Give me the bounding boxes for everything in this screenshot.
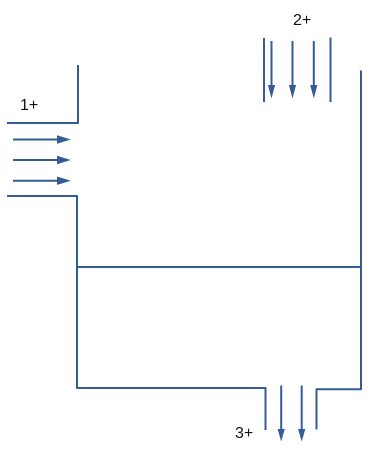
arrow: left inlet flow arrow 1 bbox=[13, 135, 71, 143]
arrow: top inlet flow arrow 1 bbox=[268, 41, 275, 99]
arrow: left inlet flow arrow 2 bbox=[13, 156, 71, 164]
arrow: top inlet flow arrow 2 bbox=[289, 41, 296, 99]
wire: top inlet left wall bbox=[263, 38, 265, 102]
wire: middle divider line bbox=[77, 266, 361, 268]
arrow: top inlet flow arrow 3 bbox=[310, 41, 317, 99]
svg-text:3+: 3+ bbox=[235, 425, 253, 442]
arrow: bottom outlet flow arrow 1 bbox=[278, 386, 285, 442]
wire: left inlet lower wall, left wall and bottom wall to outlet left lip bbox=[7, 196, 266, 430]
wire: top inlet right wall bbox=[330, 38, 332, 103]
svg-text:1+: 1+ bbox=[20, 97, 38, 114]
svg-text:2+: 2+ bbox=[293, 12, 311, 29]
arrow: left inlet flow arrow 3 bbox=[13, 177, 71, 185]
wire: right wall down to outlet right lip bbox=[317, 71, 362, 430]
wire: left inlet upper wall bbox=[7, 65, 78, 123]
arrow: bottom outlet flow arrow 2 bbox=[298, 386, 305, 442]
